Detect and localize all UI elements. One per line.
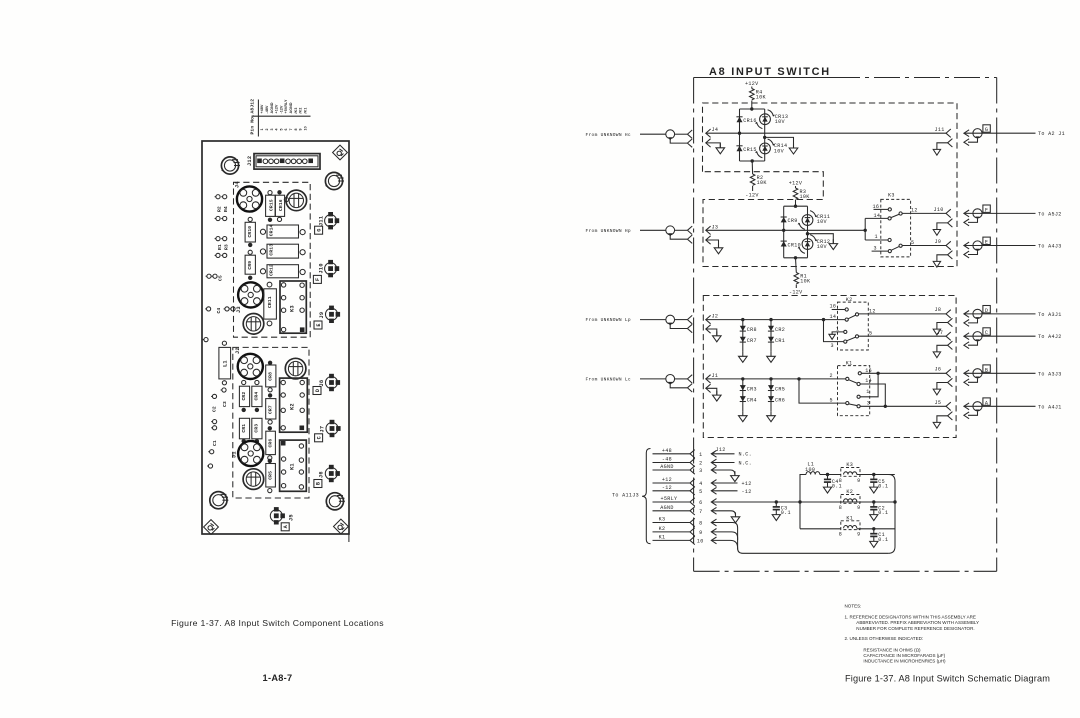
svg-text:10V: 10V [817, 244, 828, 250]
diode CR5 [266, 464, 276, 488]
svg-text:To A5J2: To A5J2 [1038, 211, 1062, 217]
coil can bottom [243, 469, 264, 490]
diode CR8 [266, 365, 276, 387]
svg-text:-48V: -48V [265, 105, 269, 114]
node bridge top [750, 107, 753, 110]
node C1 [872, 527, 875, 530]
node C4 [826, 473, 829, 476]
ground J1 shield [713, 391, 722, 401]
shield J8 with ground [933, 318, 952, 335]
connector J4 arrow [706, 129, 711, 137]
svg-text:6: 6 [699, 500, 702, 506]
svg-text:E: E [985, 240, 988, 246]
zener CR11 [798, 211, 818, 230]
svg-text:9: 9 [699, 530, 702, 536]
pin 7 AGND [653, 505, 740, 523]
svg-text:To A2 J1: To A2 J1 [1038, 131, 1065, 137]
shield J9 with ground [933, 251, 952, 268]
svg-text:10K: 10K [800, 194, 811, 200]
wire bridge to R2 [751, 161, 753, 174]
ground J4 shield [716, 143, 725, 153]
Hc/Hp channel dashed box (notched) [703, 103, 958, 267]
svg-text:1-A8-7: 1-A8-7 [263, 673, 293, 683]
resistor R4 [750, 89, 755, 100]
wire branch to contact 5 [799, 379, 846, 403]
svg-text:CR14: CR14 [268, 225, 274, 237]
svg-text:2: 2 [699, 461, 702, 467]
connector J12 [247, 154, 320, 170]
ground CR7 [739, 352, 748, 362]
input From UNKNOWN Lp [586, 315, 693, 333]
svg-text:CR11: CR11 [267, 296, 273, 308]
svg-text:J2: J2 [712, 314, 719, 320]
svg-text:4: 4 [699, 481, 702, 487]
svg-text:C5: C5 [218, 275, 224, 281]
svg-text:CR6: CR6 [268, 439, 274, 448]
svg-text:INDUCTANCE IN MICROHENRIES (μH: INDUCTANCE IN MICROHENRIES (μH) [863, 659, 946, 664]
svg-text:N.C.: N.C. [739, 460, 753, 466]
diode CR16 [275, 195, 284, 216]
shield J6 with ground [933, 378, 952, 395]
diode CR7 [266, 399, 276, 419]
svg-text:J3: J3 [236, 306, 242, 313]
svg-text:J7: J7 [937, 330, 944, 336]
pin 3 AGND [653, 464, 740, 482]
svg-text:C1: C1 [212, 440, 218, 446]
pin 1 +48 [653, 447, 753, 458]
svg-text:J8: J8 [319, 380, 325, 387]
node J6/pin1 junction [876, 372, 879, 375]
wire K1 coil to C1 [857, 528, 895, 530]
connector J6 [325, 465, 340, 482]
svg-text:3: 3 [874, 245, 877, 251]
resistor R2 [750, 174, 755, 185]
inductor L1 [219, 347, 231, 379]
svg-text:From UNKNOWN Lp: From UNKNOWN Lp [586, 317, 631, 323]
svg-text:Pin No.: Pin No. [250, 114, 256, 135]
node C2 [872, 500, 875, 503]
capacitor C2 [870, 502, 878, 521]
svg-text:G: G [316, 229, 322, 232]
bridge frame Hp [784, 206, 808, 258]
wire J2 main Lp [706, 319, 845, 321]
svg-text:C: C [985, 330, 988, 336]
wire CR2/CR1 column [770, 320, 772, 352]
svg-text:5: 5 [911, 240, 914, 246]
svg-text:CR3: CR3 [747, 386, 757, 392]
svg-text:R4: R4 [223, 206, 229, 212]
ground CR1 [767, 352, 776, 362]
wire branch to ground Hp [808, 234, 834, 244]
svg-text:CR8: CR8 [268, 372, 274, 381]
arm 3-5 [891, 246, 899, 250]
svg-text:+5RLY: +5RLY [661, 496, 678, 502]
svg-text:9: 9 [857, 478, 860, 484]
svg-text:R1: R1 [217, 244, 223, 250]
node right rail branch [763, 136, 766, 139]
connector J1 arrow [706, 375, 711, 383]
node CR2 column [769, 318, 772, 321]
svg-text:1: 1 [699, 452, 702, 458]
svg-text:CAPACITANCE IN MICROFARADS (μF: CAPACITANCE IN MICROFARADS (μF) [863, 653, 945, 658]
svg-text:D: D [315, 389, 321, 392]
input From UNKNOWN Hp [586, 226, 693, 244]
corner diamond bottom-left [204, 520, 219, 535]
diode CR1 [239, 418, 249, 439]
coil can top [286, 190, 307, 211]
lower dashed group box [233, 347, 309, 498]
svg-text:CR7: CR7 [268, 405, 274, 414]
svg-text:-12: -12 [662, 485, 672, 491]
connector J7 [326, 420, 341, 437]
svg-text:From UNKNOWN Lc: From UNKNOWN Lc [586, 377, 631, 383]
arm 3-5 [847, 337, 856, 341]
svg-text:CR15: CR15 [743, 147, 757, 153]
zener CR12 [798, 235, 818, 254]
output B to A3J3 [964, 365, 1062, 386]
ground right of bridge Hp [829, 239, 838, 249]
left pads: C5 C4 [203, 274, 236, 342]
svg-text:B: B [985, 367, 988, 373]
output G to A2J1 [964, 125, 1065, 146]
svg-text:+12: +12 [742, 481, 752, 487]
zener CR13 [755, 110, 775, 129]
svg-text:CR2: CR2 [775, 327, 785, 333]
wire L1 to K3 coil [820, 474, 841, 476]
svg-text:C4: C4 [216, 308, 222, 314]
letter box G [315, 226, 323, 234]
socket J3 [238, 282, 263, 307]
svg-text:R3: R3 [224, 244, 230, 250]
output C to A4J2 [964, 328, 1062, 349]
svg-text:K1: K1 [659, 534, 666, 540]
svg-text:J6: J6 [935, 367, 942, 373]
svg-text:+48V: +48V [260, 104, 264, 113]
outer assembly border [694, 78, 997, 572]
svg-text:1: 1 [260, 128, 264, 130]
svg-text:J11: J11 [319, 216, 325, 226]
socket J2 [238, 354, 263, 379]
svg-text:E: E [316, 323, 322, 326]
diode CR9 [781, 217, 787, 222]
wire K3 coil to C5 [857, 474, 895, 476]
svg-text:10: 10 [697, 538, 704, 544]
ground CR4 [739, 411, 748, 421]
svg-text:J2: J2 [235, 347, 241, 354]
svg-text:J10: J10 [934, 207, 944, 213]
diode CR7 [740, 337, 746, 342]
pin 4 +12 [653, 477, 752, 487]
shield J10 with ground [933, 219, 952, 236]
connector J10 [325, 260, 340, 277]
Lp/Lc channel dashed box [703, 296, 956, 438]
svg-text:CR6: CR6 [775, 397, 785, 403]
svg-text:To A4J2: To A4J2 [1038, 334, 1062, 340]
diode CR10 [781, 241, 787, 246]
svg-text:1: 1 [875, 234, 878, 240]
svg-text:From UNKNOWN Hp: From UNKNOWN Hp [586, 228, 631, 234]
shield arrow J3 [706, 236, 711, 244]
svg-text:-12V: -12V [745, 193, 759, 199]
svg-text:AGND: AGND [660, 464, 674, 470]
svg-text:16: 16 [830, 304, 837, 310]
shield arrow J2 [706, 325, 711, 333]
relay K1 [280, 440, 307, 491]
wire branch to ground [765, 137, 794, 147]
svg-text:+5VRLY: +5VRLY [284, 99, 288, 114]
svg-text:CR15: CR15 [269, 199, 275, 211]
ground J2 shield [713, 331, 722, 341]
wire R4 to bridge [751, 101, 753, 110]
svg-text:J6: J6 [319, 471, 325, 478]
wire CR8/CR7 column [742, 320, 744, 352]
connector J2 arrow [706, 315, 711, 323]
left pads column: R1 R3 [215, 237, 230, 258]
svg-text:J9: J9 [319, 312, 325, 319]
node pin14/J5 [884, 405, 887, 408]
svg-text:CR12: CR12 [268, 264, 274, 276]
pin 2 -48 [653, 457, 753, 467]
pin 10 K1 [653, 534, 738, 549]
svg-text:5: 5 [830, 398, 833, 404]
svg-text:J5: J5 [935, 400, 942, 406]
svg-text:/K2: /K2 [299, 108, 303, 114]
pin 9 K2 [653, 526, 738, 540]
svg-text:R2: R2 [217, 206, 223, 212]
svg-text:CR5: CR5 [268, 471, 274, 480]
svg-text:2: 2 [265, 128, 269, 130]
node CR3 column [741, 377, 744, 380]
relay coil K1 [839, 515, 861, 537]
svg-text:CR3: CR3 [253, 424, 259, 433]
svg-text:CR1: CR1 [775, 338, 785, 344]
svg-text:AGND: AGND [660, 505, 674, 511]
svg-text:J11: J11 [935, 127, 945, 133]
svg-text:2. UNLESS OTHERWISE INDICATED: 2. UNLESS OTHERWISE INDICATED: [845, 636, 924, 641]
svg-text:To A3J1: To A3J1 [1038, 312, 1062, 318]
svg-text:10K: 10K [757, 180, 768, 186]
svg-text:A8J12: A8J12 [250, 99, 256, 114]
diode CR11 [264, 289, 277, 319]
relay coil K3 [839, 462, 861, 484]
left pads: C2 C3 C1 [207, 388, 228, 468]
mounting hole top-left [221, 157, 240, 174]
svg-text:J12: J12 [247, 156, 253, 166]
zener CR14 [755, 139, 775, 158]
svg-text:CR2: CR2 [241, 392, 247, 401]
capacitor C5 [870, 475, 878, 494]
svg-text:0.1: 0.1 [878, 484, 888, 490]
shield arrow J4 [706, 139, 711, 147]
mounting hole top-right [325, 172, 344, 189]
svg-text:0.1: 0.1 [832, 484, 842, 490]
ground K2 pin1 [829, 334, 835, 339]
rail3 wire [800, 528, 841, 530]
svg-text:14: 14 [865, 378, 872, 384]
svg-text:5: 5 [279, 128, 283, 130]
node rail2 left [798, 500, 801, 503]
svg-text:D: D [985, 308, 988, 314]
svg-text:10V: 10V [775, 119, 786, 125]
svg-text:14: 14 [830, 314, 837, 320]
shield J11 with ground [933, 139, 952, 156]
output D to A3J1 [964, 306, 1062, 327]
relay K1 [830, 361, 947, 416]
svg-text:-12V: -12V [789, 290, 803, 296]
svg-text:0.1: 0.1 [781, 510, 791, 516]
upper dashed group box [234, 182, 311, 337]
ground J3 shield [714, 243, 723, 253]
relay coil K2 [839, 489, 861, 511]
svg-text:J1: J1 [712, 373, 719, 379]
svg-text:9: 9 [299, 128, 303, 130]
letter box C [315, 434, 323, 442]
diode CR15 [736, 146, 742, 151]
svg-text:+12V: +12V [275, 104, 279, 113]
connector J9 [326, 306, 341, 323]
svg-text:1. REFERENCE DESIGNATORS WITH: 1. REFERENCE DESIGNATORS WITHIN THIS ASS… [845, 614, 976, 619]
capacitor C3 [772, 502, 780, 521]
svg-text:-12V: -12V [279, 105, 283, 114]
svg-text:9: 9 [857, 531, 860, 537]
svg-text:J5: J5 [288, 514, 294, 521]
input From UNKNOWN Lc [586, 375, 693, 393]
wire bridge to R1 [795, 258, 798, 273]
diode CR14 [267, 225, 299, 238]
node K2 common [822, 318, 825, 321]
svg-text:1: 1 [866, 389, 869, 395]
node right rail branch Hp [806, 232, 809, 235]
relay K3 [280, 281, 306, 333]
svg-text:7: 7 [699, 509, 702, 515]
svg-text:K3: K3 [888, 193, 895, 199]
node main/left rail Hp [782, 229, 785, 232]
diode CR9 [245, 255, 255, 274]
svg-text:+48: +48 [662, 448, 672, 454]
diode CR13 [267, 244, 299, 258]
wire R3 to bridge [795, 200, 797, 206]
svg-text:/K1: /K1 [303, 108, 307, 114]
arm 5-3 [849, 404, 858, 406]
svg-text:10V: 10V [774, 148, 785, 154]
connector J3 arrow [706, 226, 711, 234]
diode CR6 [266, 431, 276, 454]
svg-text:C2: C2 [212, 406, 218, 412]
svg-text:CR1: CR1 [241, 424, 247, 433]
shield J5 with ground [933, 412, 952, 429]
arm 14-12 [891, 214, 900, 218]
wire R1 to -12V [795, 285, 797, 289]
svg-text:To A11J3: To A11J3 [612, 492, 639, 498]
svg-text:4: 4 [275, 128, 279, 130]
svg-text:+12V: +12V [745, 81, 759, 87]
arm 14-12 [848, 315, 856, 319]
node bridge bottom [751, 159, 754, 162]
wire J3 main Hp [706, 229, 865, 231]
relay K2 [822, 297, 946, 350]
node rail2 right [893, 500, 896, 503]
svg-text:J10: J10 [318, 263, 324, 273]
svg-text:-12: -12 [742, 489, 752, 495]
output E to A4J3 [964, 237, 1062, 258]
wire CR3/CR4 column [742, 379, 744, 411]
letter box A [281, 523, 289, 531]
diode CR4 [252, 386, 262, 406]
bus right vertical [888, 475, 895, 554]
svg-text:L1: L1 [223, 360, 229, 367]
svg-text:J4: J4 [712, 127, 719, 133]
svg-text:CR9: CR9 [247, 261, 253, 270]
left pads column upper: R2 R4 [215, 195, 230, 221]
corner diamond bottom-right [334, 519, 349, 534]
svg-text:CR9: CR9 [788, 218, 798, 224]
svg-text:8: 8 [839, 531, 842, 537]
svg-text:3: 3 [831, 343, 834, 349]
capacitor C4 [823, 475, 831, 494]
output A to A4J1 [964, 398, 1062, 419]
wire CR5/CR6 column [770, 379, 772, 411]
svg-text:10V: 10V [817, 219, 828, 225]
input From UNKNOWN Hc [586, 130, 693, 148]
svg-text:CR13: CR13 [268, 244, 274, 256]
svg-text:NOTES:: NOTES: [845, 604, 862, 609]
svg-text:To A4J3: To A4J3 [1038, 244, 1062, 250]
shield J7 with ground [933, 341, 952, 358]
svg-text:To A3J3: To A3J3 [1038, 371, 1062, 377]
svg-text:A8 INPUT SWITCH: A8 INPUT SWITCH [709, 66, 831, 78]
svg-text:8: 8 [839, 505, 842, 511]
diode CR3 [740, 385, 746, 390]
svg-text:CR16: CR16 [743, 118, 757, 124]
capacitor C1 [870, 529, 878, 548]
relay K3 [864, 193, 947, 257]
node C5 [872, 473, 875, 476]
svg-text:F: F [985, 207, 988, 213]
svg-text:9: 9 [857, 505, 860, 511]
svg-text:F: F [315, 278, 321, 281]
svg-text:CR7: CR7 [747, 338, 757, 344]
letter box F [313, 275, 321, 283]
diode CR10 [245, 222, 255, 242]
socket J4 [237, 186, 262, 211]
svg-text:12: 12 [911, 208, 918, 214]
svg-text:K3: K3 [290, 305, 296, 312]
shield arrow J1 [706, 384, 711, 392]
node K1 branch [797, 377, 800, 380]
svg-text:CR4: CR4 [747, 397, 757, 403]
svg-text:3: 3 [270, 128, 274, 130]
node main/left rail [738, 132, 741, 135]
svg-text:CR5: CR5 [775, 386, 785, 392]
wire J4 main Hc [706, 132, 946, 134]
svg-text:AGND: AGND [289, 102, 293, 113]
arm 2-14 [849, 380, 858, 384]
node CR5 column [769, 377, 772, 380]
svg-text:B: B [316, 482, 322, 485]
svg-text:CR16: CR16 [278, 199, 284, 211]
rail1 left vertical [800, 475, 806, 529]
svg-text:RESISTANCE IN OHMS (Ω): RESISTANCE IN OHMS (Ω) [863, 647, 921, 652]
svg-text:10: 10 [303, 126, 307, 130]
diode CR2 [239, 386, 249, 406]
svg-text:J3: J3 [712, 224, 719, 230]
letter box E [314, 321, 322, 329]
svg-text:N.C.: N.C. [739, 452, 753, 458]
svg-text:5: 5 [699, 489, 702, 495]
diode CR5 [768, 385, 774, 390]
svg-text:From UNKNOWN Hc: From UNKNOWN Hc [586, 132, 631, 138]
node bridge top Hp [794, 205, 797, 208]
